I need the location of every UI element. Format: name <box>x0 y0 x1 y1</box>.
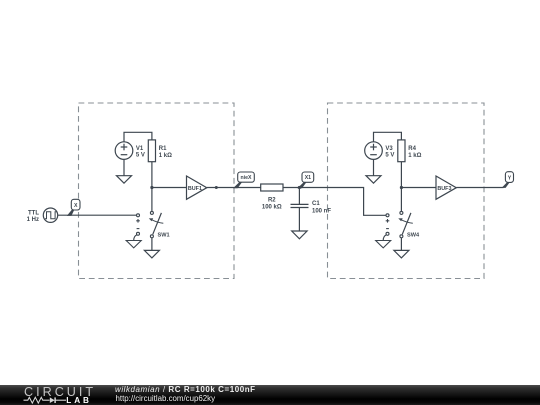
svg-text:5 V: 5 V <box>385 153 394 159</box>
svg-text:SW1: SW1 <box>158 233 170 239</box>
svg-text:X1: X1 <box>305 175 311 181</box>
dashed box left stage <box>79 103 235 279</box>
net flag X1 <box>297 172 313 188</box>
footer title line <box>115 385 256 394</box>
wire V1 top to R1 top <box>124 132 152 142</box>
net flag Y <box>502 172 514 188</box>
wire C1 bottom to ground <box>298 208 300 232</box>
op-amp buffer BUF1 <box>187 176 207 199</box>
R4 value label "R4 1 kOhm" <box>408 146 421 159</box>
capacitor C1 <box>291 204 309 207</box>
svg-text:C1: C1 <box>312 201 320 207</box>
CircuitLab logo wordmark <box>24 385 96 399</box>
wire V3 bottom to ground <box>373 159 375 175</box>
svg-text:X: X <box>74 203 78 209</box>
CircuitLab logo zigzag + diode <box>23 396 67 405</box>
R2 value label "R2 100 kOhm" <box>262 197 282 210</box>
wire node to BUF1 input <box>152 187 187 189</box>
voltage source V1 <box>115 142 133 160</box>
ground under SW1 <box>144 250 159 258</box>
resistor R2 <box>261 184 283 191</box>
wire BUF1 output to R2 <box>207 187 261 189</box>
wire BUF3 output to Y flag <box>456 187 503 189</box>
svg-text:1 kΩ: 1 kΩ <box>408 153 421 159</box>
svg-text:R4: R4 <box>408 146 416 152</box>
ground under SW4 <box>394 250 409 258</box>
svg-text:BUF1: BUF1 <box>188 186 202 192</box>
svg-text:R1: R1 <box>159 146 167 152</box>
node dot at R4/BUF3/SW4 <box>400 186 403 189</box>
wire R4 bottom through node to SW4 top <box>400 162 402 212</box>
V1 value label "V1 5 V" <box>136 146 145 159</box>
svg-text:BUF3: BUF3 <box>437 186 451 192</box>
wire SW1 bottom to ground <box>151 238 153 251</box>
R1 value label "R1 1 kOhm" <box>159 146 172 159</box>
C1 value label "C1 100 nF" <box>312 201 331 214</box>
svg-text:TTL: TTL <box>28 211 39 217</box>
svg-text:1 kΩ: 1 kΩ <box>159 153 172 159</box>
ground under V1 <box>117 176 132 184</box>
node dot on BUF1 output <box>215 186 218 189</box>
wire X1 node down to C1 <box>298 188 300 205</box>
svg-text:SW4: SW4 <box>407 233 420 239</box>
wire node to BUF3 input <box>401 187 436 189</box>
svg-text:V3: V3 <box>385 146 393 152</box>
node dot at X1/C1 <box>298 186 301 189</box>
svg-text:R2: R2 <box>268 197 276 203</box>
wire R2 right to SW4 control via step <box>283 188 386 216</box>
svg-text:100 nF: 100 nF <box>312 209 331 215</box>
op-amp buffer BUF3 <box>436 176 456 199</box>
voltage source V3 <box>365 142 383 160</box>
ground at SW4 control- <box>376 241 391 248</box>
resistor R1 <box>148 140 155 162</box>
ground at SW1 control- <box>126 241 141 248</box>
wire V1 bottom to ground <box>123 159 125 175</box>
resistor R4 <box>398 140 405 162</box>
wire V3 top to R4 top <box>374 132 402 142</box>
V3 value label "V3 5 V" <box>385 146 394 159</box>
TTL value label "TTL 1 Hz" <box>27 211 40 223</box>
svg-text:1 Hz: 1 Hz <box>27 217 39 223</box>
wire SW4 bottom to ground <box>400 238 402 251</box>
switch SW1 <box>134 211 164 240</box>
svg-text:nieX: nieX <box>241 175 252 181</box>
wire TTL output to SW1 control+ <box>58 214 137 216</box>
node dot at R1/BUF1/SW1 <box>150 186 153 189</box>
ground under C1 <box>292 231 307 239</box>
net flag nieX <box>233 172 254 188</box>
svg-text:V1: V1 <box>136 146 144 152</box>
net flag X <box>67 199 80 216</box>
CircuitLab logo LAB text <box>66 396 92 405</box>
svg-text:100 kΩ: 100 kΩ <box>262 205 282 211</box>
switch SW4 <box>383 211 413 240</box>
footer url line <box>116 394 216 403</box>
wire R1 bottom through node to SW1 top <box>151 162 153 212</box>
ground under V3 <box>366 176 381 184</box>
source TTL square-wave generator <box>43 208 57 222</box>
svg-text:Y: Y <box>508 176 512 182</box>
dashed box right stage <box>328 103 485 279</box>
svg-text:5 V: 5 V <box>136 153 145 159</box>
